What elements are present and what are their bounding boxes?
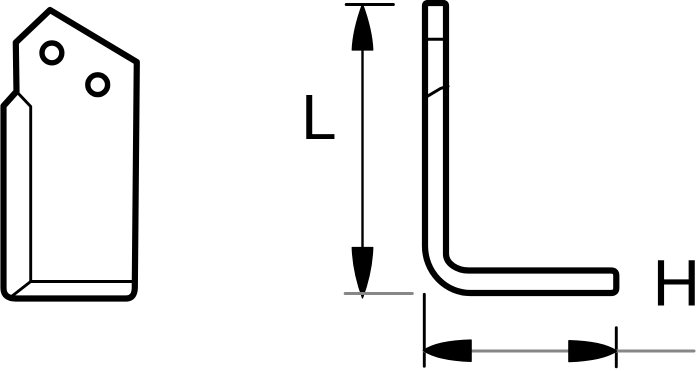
dimension H: left arrowhead [424,340,472,361]
dimension H: right arrowhead [569,341,617,362]
mounting hole upper [42,43,62,63]
dimension L: top extension tick [346,3,393,6]
dimension L: top arrowhead [352,4,373,50]
blade bevel edge line vertical [17,92,31,282]
side view weld line [426,38,445,41]
svg-text:L: L [301,81,337,153]
dimension L: bottom extension line (gray) [345,292,412,295]
tiller blade front view outline [4,10,137,299]
svg-text:H: H [653,246,700,320]
dimension H: right extension tick [615,328,618,367]
dimension L: vertical line [361,5,363,296]
dimension L: bottom arrowhead [352,248,373,299]
mounting hole lower [88,75,108,95]
side view bevel curve [427,86,449,97]
dimension H: horizontal line (gray) [424,350,694,353]
dimension H: left extension tick [423,294,426,366]
blade bevel corner diagonal [12,282,31,297]
blade bevel edge line horizontal [31,280,135,283]
blade side view outline [425,3,616,293]
